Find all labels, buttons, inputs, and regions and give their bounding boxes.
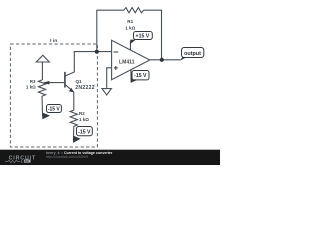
resistor R3 (potentiometer) — [38, 80, 45, 96]
node junction (output) — [160, 58, 164, 62]
svg-text:2N2222: 2N2222 — [75, 85, 95, 91]
output flag — [182, 48, 204, 58]
flag tail — [42, 113, 50, 120]
current source box (dashed) — [10, 44, 97, 147]
resistor R2 — [70, 110, 77, 126]
footer bar — [0, 150, 220, 165]
resistor R1 — [124, 8, 144, 13]
op-amp U1 — [112, 40, 150, 79]
wire collector riser — [74, 52, 111, 73]
svg-text:-15 V: -15 V — [48, 106, 61, 112]
ground (below + input) — [102, 89, 111, 95]
feedback wire right riser — [144, 10, 162, 60]
output wire — [150, 59, 181, 61]
svg-text:R2: R2 — [79, 111, 85, 116]
svg-text:1 kΩ: 1 kΩ — [26, 84, 36, 89]
svg-text:1 kΩ: 1 kΩ — [79, 117, 89, 122]
ground (rotated, above R3) — [36, 55, 49, 80]
svg-text:http://circuitlab.com/c/62hh5: http://circuitlab.com/c/62hh5 — [46, 155, 88, 159]
transistor Q1 — [65, 72, 74, 92]
wire emitter to R2 — [73, 92, 75, 110]
svg-text:-15 V: -15 V — [134, 73, 147, 79]
minus input mark — [114, 51, 119, 53]
+15V flag tail — [129, 44, 131, 50]
svg-text:Q1: Q1 — [75, 79, 82, 84]
feedback wire left riser — [97, 10, 124, 52]
-15V flag tail (op-amp) — [130, 70, 132, 82]
wire R2 bottom to flag — [72, 126, 74, 141]
-15V flag (below R3) — [47, 105, 62, 113]
-15V flag (op-amp) — [132, 71, 149, 80]
output flag tail — [180, 57, 187, 61]
+15V flag — [134, 32, 153, 40]
+ input wire to ground — [107, 68, 112, 89]
node junction (inverting input) — [95, 50, 99, 54]
-15V flag (below R2) — [77, 127, 93, 136]
svg-text:I in: I in — [50, 38, 57, 44]
plus input mark — [114, 67, 118, 69]
flag tail — [73, 136, 81, 143]
svg-text:R1: R1 — [127, 19, 133, 24]
svg-text:R3: R3 — [30, 79, 36, 84]
svg-text:-15 V: -15 V — [78, 129, 91, 135]
svg-text:LM411: LM411 — [119, 60, 135, 66]
wire R3 bottom to flag — [41, 96, 44, 117]
svg-text:output: output — [184, 51, 201, 57]
svg-text:1 kΩ: 1 kΩ — [125, 25, 135, 30]
R3 wiper arrow — [47, 82, 64, 84]
Q1 emitter arrow — [69, 88, 74, 93]
svg-text:+15 V: +15 V — [136, 34, 150, 40]
